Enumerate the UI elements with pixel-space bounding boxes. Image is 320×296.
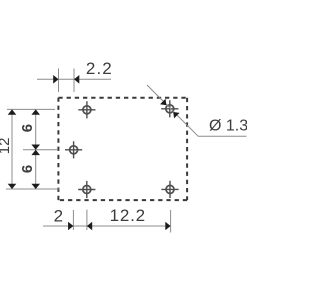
dimension 2.2 arrowheads — [53, 75, 79, 84]
svg-text:Ø 1.3: Ø 1.3 — [209, 117, 247, 134]
dimension 2 arrowheads (bottom) — [68, 222, 92, 231]
dimension 6 arrowheads — [31, 109, 40, 189]
svg-text:2.2: 2.2 — [86, 59, 113, 78]
dimension 12 arrowheads — [8, 109, 17, 189]
dimension 2.2 extension lines (top) — [59, 69, 75, 93]
hole H1 (top-left pin) — [78, 101, 95, 118]
dimension 12 line (left outer) — [11, 109, 13, 189]
hole H5 (bottom-right pin) — [161, 181, 178, 198]
left extension line (top row) — [7, 108, 55, 110]
left extension line (middle row) — [23, 149, 57, 151]
dimension 12.2 arrowhead (bottom right) — [165, 222, 170, 231]
dimension 6 line (left inner) — [35, 109, 37, 189]
diameter leader arrowheads — [160, 99, 180, 119]
svg-text:12: 12 — [0, 138, 13, 155]
component outline (dashed PCB footprint rectangle) — [58, 98, 187, 200]
left extension line (bottom row) — [6, 188, 59, 190]
bottom dimension line — [43, 225, 171, 227]
diameter leader line (diagonal through hole H3) — [147, 85, 247, 136]
bottom extension lines — [73, 210, 170, 233]
hole H3 (top-right pin, with diameter leader) — [161, 100, 178, 117]
svg-text:2: 2 — [54, 207, 63, 226]
svg-text:6: 6 — [19, 124, 36, 132]
dimension 2.2 line — [37, 78, 111, 80]
svg-text:12.2: 12.2 — [110, 206, 146, 225]
svg-text:6: 6 — [19, 165, 36, 173]
hole H4 (bottom-left pin) — [78, 181, 95, 198]
hole H2 (middle-left pin) — [65, 141, 82, 158]
